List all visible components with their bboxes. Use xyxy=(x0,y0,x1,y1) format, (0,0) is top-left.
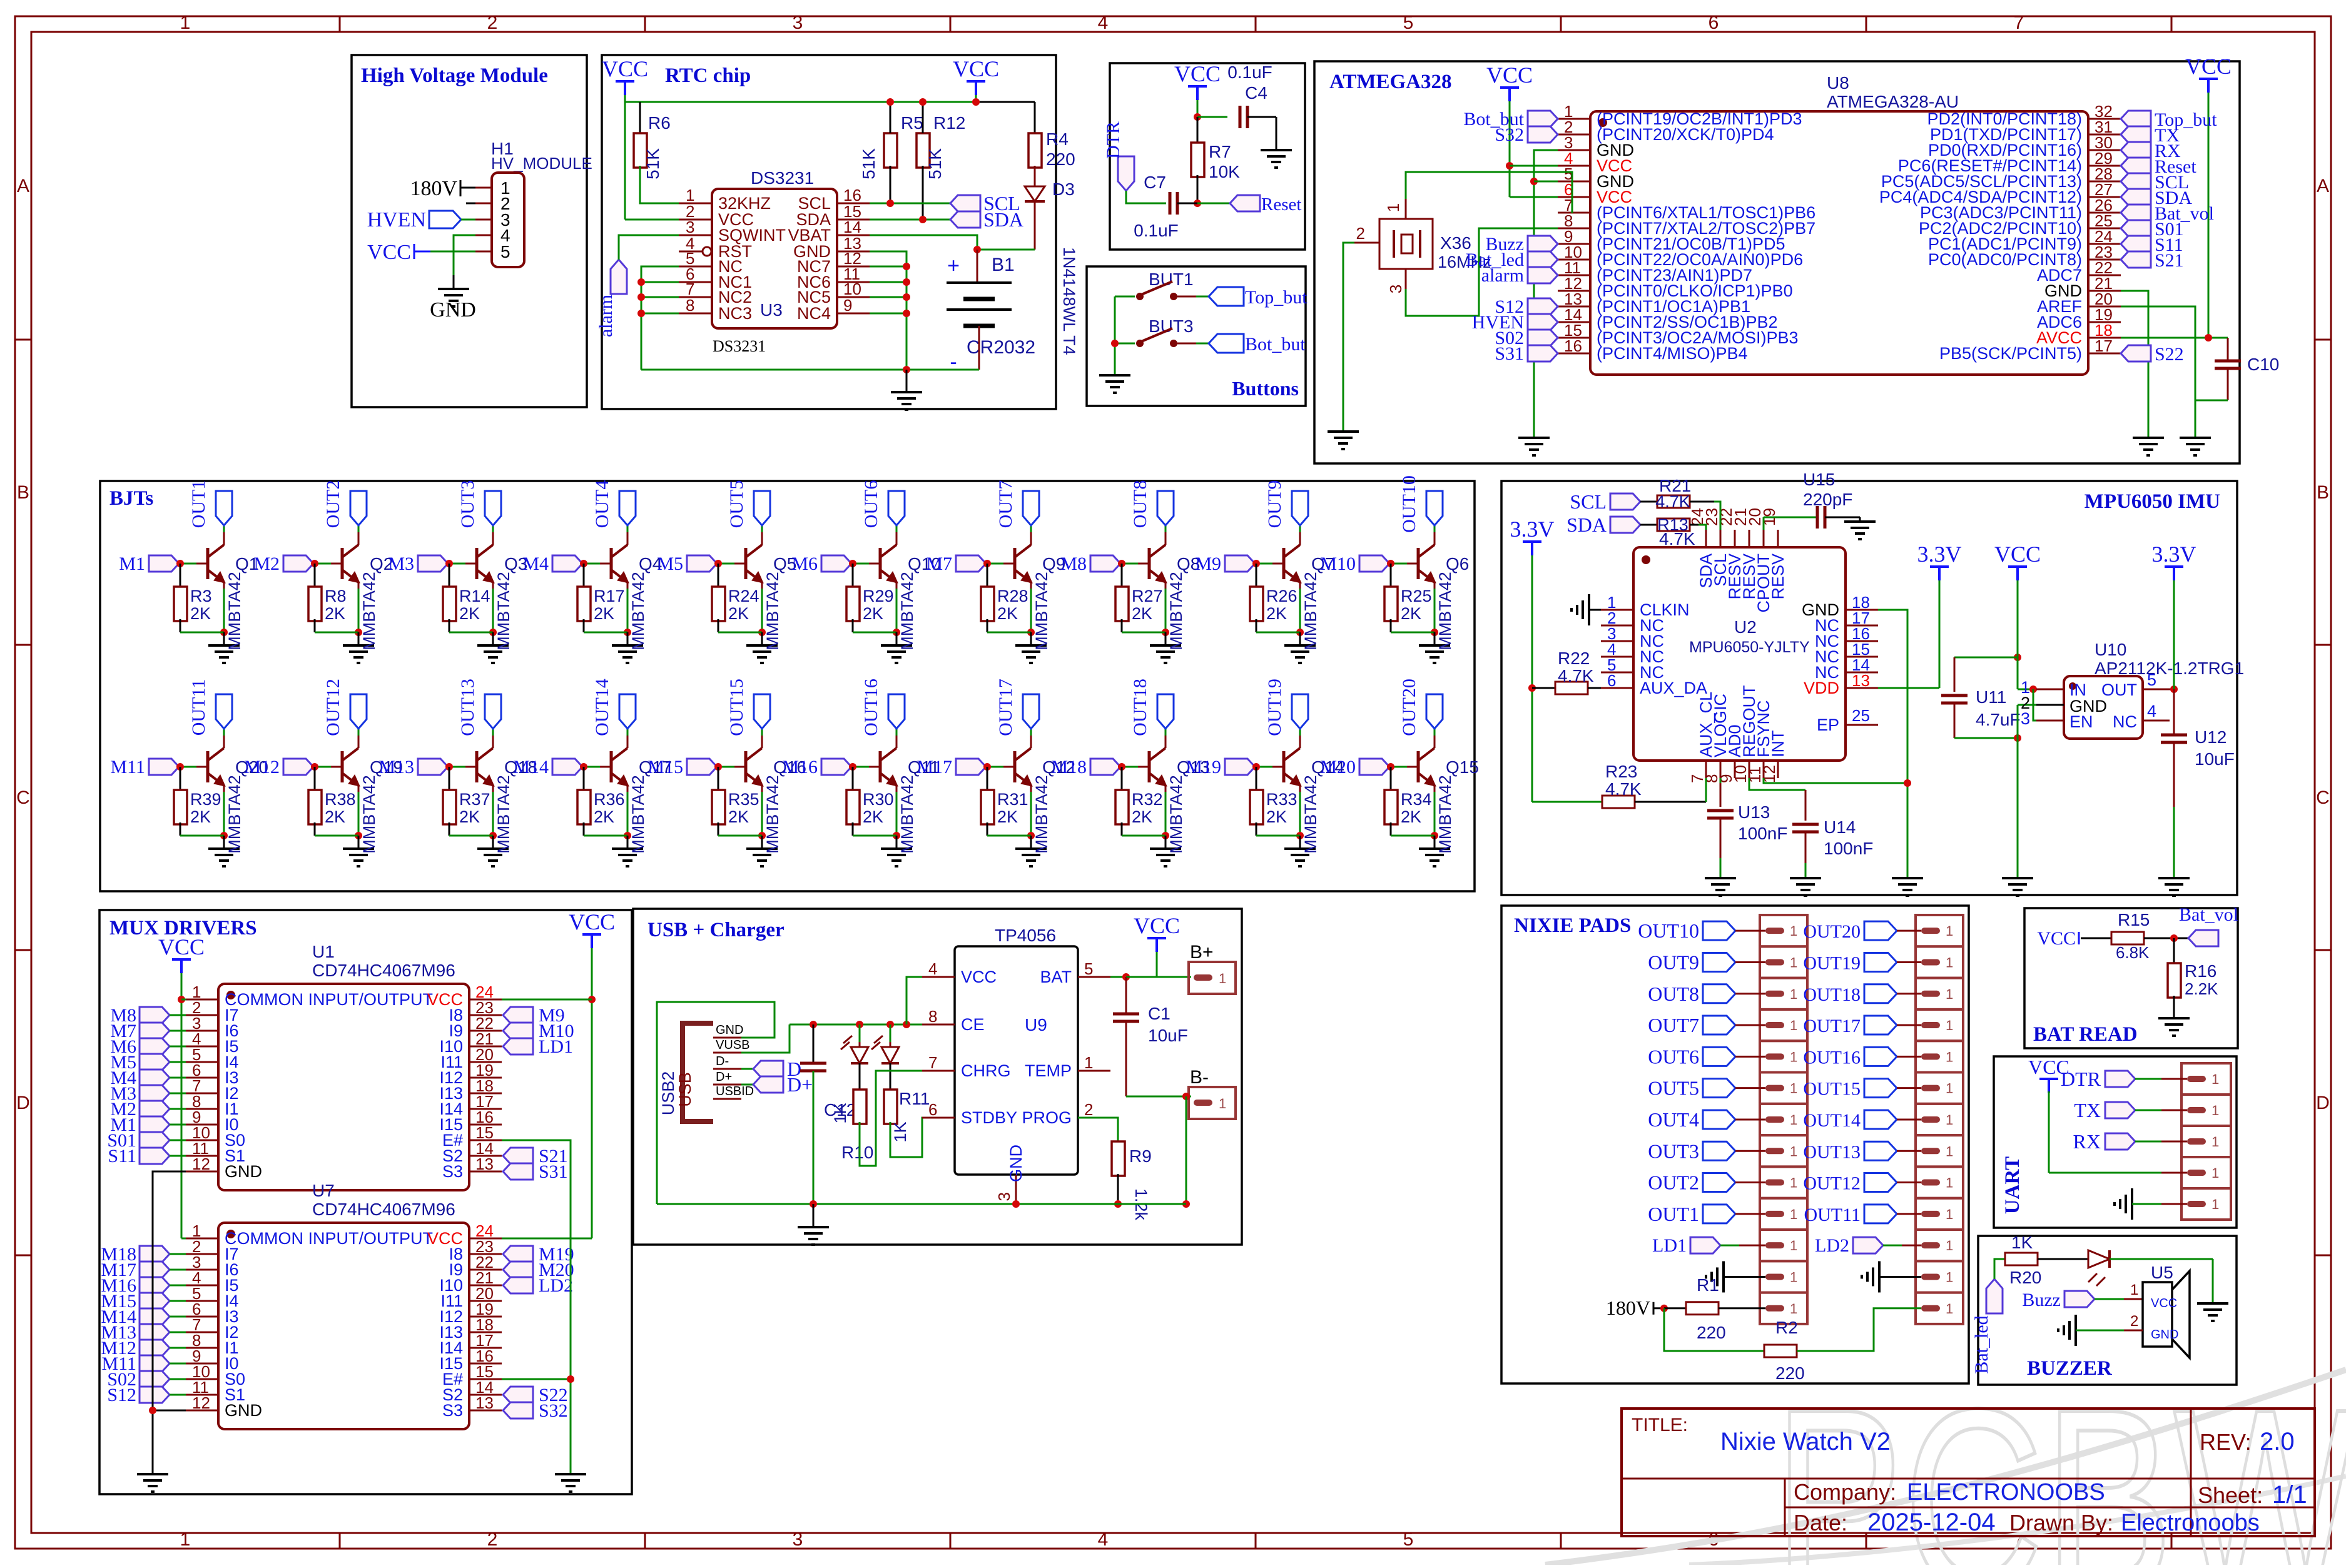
svg-text:USB + Charger: USB + Charger xyxy=(647,919,785,941)
svg-text:1: 1 xyxy=(1946,1049,1953,1065)
svg-text:MMBTA42: MMBTA42 xyxy=(763,572,782,650)
svg-text:R27: R27 xyxy=(1132,587,1163,605)
svg-text:OUT1: OUT1 xyxy=(1648,1203,1699,1225)
svg-text:S22: S22 xyxy=(2155,344,2184,365)
svg-text:Date:: Date: xyxy=(1794,1510,1847,1535)
svg-text:U7: U7 xyxy=(312,1181,335,1200)
svg-text:4: 4 xyxy=(1098,13,1109,33)
svg-text:2K: 2K xyxy=(1401,604,1421,623)
svg-text:M10: M10 xyxy=(1320,554,1356,574)
svg-text:R2: R2 xyxy=(1775,1318,1798,1337)
svg-text:VCC: VCC xyxy=(158,934,205,959)
svg-text:2K: 2K xyxy=(1266,604,1287,623)
svg-text:VUSB: VUSB xyxy=(716,1038,749,1052)
svg-text:GND: GND xyxy=(225,1162,262,1181)
svg-text:1: 1 xyxy=(1219,971,1226,986)
svg-text:1: 1 xyxy=(1946,923,1953,939)
svg-text:M5: M5 xyxy=(657,554,683,574)
svg-text:M15: M15 xyxy=(647,757,683,777)
svg-text:COMMON INPUT/OUTPUT: COMMON INPUT/OUTPUT xyxy=(225,990,433,1009)
svg-text:R34: R34 xyxy=(1401,790,1432,809)
svg-text:OUT18: OUT18 xyxy=(1130,679,1150,736)
svg-text:M12: M12 xyxy=(244,757,280,777)
svg-text:GND: GND xyxy=(225,1401,262,1420)
svg-text:VCC: VCC xyxy=(1486,63,1533,88)
svg-text:BJTs: BJTs xyxy=(109,487,153,510)
svg-text:180V: 180V xyxy=(1606,1297,1650,1319)
svg-text:OUT6: OUT6 xyxy=(861,480,881,529)
svg-text:2K: 2K xyxy=(594,604,614,623)
svg-text:C4: C4 xyxy=(1245,83,1267,103)
svg-text:1: 1 xyxy=(180,13,191,33)
svg-text:1: 1 xyxy=(1946,1238,1953,1253)
svg-text:UART: UART xyxy=(2001,1156,2024,1214)
svg-text:M4: M4 xyxy=(522,554,549,574)
svg-text:C10: C10 xyxy=(2247,355,2279,374)
svg-text:Buzz: Buzz xyxy=(2022,1290,2061,1310)
svg-text:1: 1 xyxy=(2211,1103,2219,1118)
svg-text:R24: R24 xyxy=(728,587,759,605)
svg-text:17: 17 xyxy=(2095,336,2113,355)
svg-text:VDD: VDD xyxy=(1804,679,1839,697)
svg-text:2: 2 xyxy=(487,13,498,33)
svg-text:2K: 2K xyxy=(459,604,480,623)
svg-text:OUT4: OUT4 xyxy=(1648,1108,1699,1131)
svg-text:TEMP: TEMP xyxy=(1025,1061,1072,1080)
svg-text:4: 4 xyxy=(928,959,937,978)
svg-text:VCC: VCC xyxy=(953,56,999,81)
svg-text:2K: 2K xyxy=(594,807,614,826)
svg-text:1: 1 xyxy=(1384,203,1403,212)
svg-text:MMBTA42: MMBTA42 xyxy=(1301,775,1320,854)
svg-text:220pF: 220pF xyxy=(1803,490,1852,509)
svg-text:OUT1: OUT1 xyxy=(188,480,209,529)
svg-text:1: 1 xyxy=(2211,1165,2219,1181)
svg-text:MMBTA42: MMBTA42 xyxy=(360,572,378,650)
svg-text:BUT1: BUT1 xyxy=(1149,270,1194,289)
svg-text:M3: M3 xyxy=(388,554,414,574)
svg-text:1: 1 xyxy=(1946,1112,1953,1128)
svg-text:S21: S21 xyxy=(2155,250,2184,271)
svg-text:2025-12-04: 2025-12-04 xyxy=(1867,1509,1996,1536)
svg-text:1: 1 xyxy=(2211,1196,2219,1212)
svg-text:RX: RX xyxy=(2073,1130,2101,1153)
svg-text:M2: M2 xyxy=(253,554,280,574)
svg-text:PB5(SCK/PCINT5): PB5(SCK/PCINT5) xyxy=(1939,344,2082,363)
svg-text:10uF: 10uF xyxy=(1148,1026,1188,1045)
svg-text:VCC: VCC xyxy=(1994,542,2041,567)
svg-text:M18: M18 xyxy=(1051,757,1087,777)
svg-text:HV_MODULE: HV_MODULE xyxy=(491,154,592,173)
svg-text:HVEN: HVEN xyxy=(367,208,426,231)
svg-text:12: 12 xyxy=(192,1155,210,1173)
svg-text:R28: R28 xyxy=(997,587,1028,605)
svg-text:MMBTA42: MMBTA42 xyxy=(1032,572,1051,650)
svg-text:R20: R20 xyxy=(2009,1268,2041,1287)
svg-text:VCC: VCC xyxy=(2037,928,2076,949)
svg-text:OUT20: OUT20 xyxy=(1803,921,1861,942)
svg-text:6.8K: 6.8K xyxy=(2116,943,2150,962)
svg-text:S31: S31 xyxy=(539,1161,568,1182)
svg-text:M14: M14 xyxy=(513,757,549,777)
svg-text:R9: R9 xyxy=(1129,1146,1152,1166)
svg-text:4.7K: 4.7K xyxy=(1655,492,1690,511)
svg-text:B+: B+ xyxy=(1190,942,1214,963)
svg-text:1: 1 xyxy=(1946,1301,1953,1317)
svg-text:OUT2: OUT2 xyxy=(1648,1171,1699,1194)
svg-text:VCC: VCC xyxy=(569,909,615,934)
svg-text:U11: U11 xyxy=(1976,687,2006,707)
svg-text:R36: R36 xyxy=(594,790,625,809)
svg-text:BAT: BAT xyxy=(1040,968,1072,986)
svg-text:51K: 51K xyxy=(925,148,945,180)
svg-text:COMMON INPUT/OUTPUT: COMMON INPUT/OUTPUT xyxy=(225,1229,433,1248)
svg-text:LD1: LD1 xyxy=(539,1036,573,1057)
svg-text:MMBTA42: MMBTA42 xyxy=(225,775,244,854)
svg-text:MPU6050 IMU: MPU6050 IMU xyxy=(2084,490,2220,513)
svg-text:OUT15: OUT15 xyxy=(726,679,747,736)
svg-text:2K: 2K xyxy=(728,807,749,826)
svg-text:1: 1 xyxy=(1790,1269,1797,1285)
svg-text:13: 13 xyxy=(475,1393,494,1412)
svg-text:ATMEGA328-AU: ATMEGA328-AU xyxy=(1827,92,1959,111)
svg-text:1: 1 xyxy=(1790,1143,1797,1159)
svg-text:R30: R30 xyxy=(863,790,894,809)
svg-text:TITLE:: TITLE: xyxy=(1632,1415,1688,1435)
svg-text:1: 1 xyxy=(1946,986,1953,1002)
svg-text:3: 3 xyxy=(2021,709,2030,728)
svg-text:NC3: NC3 xyxy=(718,304,752,323)
svg-text:1: 1 xyxy=(1790,986,1797,1002)
svg-text:3: 3 xyxy=(995,1192,1013,1201)
svg-text:OUT11: OUT11 xyxy=(1804,1205,1861,1225)
svg-text:OUT: OUT xyxy=(2101,680,2137,699)
svg-text:MMBTA42: MMBTA42 xyxy=(225,572,244,650)
svg-text:R15: R15 xyxy=(2118,910,2150,929)
svg-text:M1: M1 xyxy=(119,554,145,574)
svg-text:OUT13: OUT13 xyxy=(1803,1141,1861,1162)
svg-text:CE: CE xyxy=(961,1015,985,1034)
svg-text:U10: U10 xyxy=(2095,640,2126,659)
svg-text:OUT17: OUT17 xyxy=(1803,1016,1861,1036)
svg-text:VCC: VCC xyxy=(961,968,997,986)
svg-text:2K: 2K xyxy=(325,807,345,826)
svg-text:R10: R10 xyxy=(841,1143,873,1162)
svg-text:NIXIE PADS: NIXIE PADS xyxy=(1514,914,1631,937)
svg-text:1: 1 xyxy=(1946,1081,1953,1096)
svg-text:U3: U3 xyxy=(760,300,783,320)
svg-text:Bot_but: Bot_but xyxy=(1245,334,1306,355)
svg-text:VCC: VCC xyxy=(367,241,411,264)
svg-text:8: 8 xyxy=(928,1007,937,1026)
svg-text:C1: C1 xyxy=(1148,1004,1170,1023)
svg-text:1: 1 xyxy=(1946,954,1953,970)
svg-text:S32: S32 xyxy=(1495,124,1524,145)
svg-text:6: 6 xyxy=(928,1100,937,1119)
svg-text:D: D xyxy=(2316,1093,2330,1113)
svg-text:S12: S12 xyxy=(107,1385,136,1405)
svg-text:7: 7 xyxy=(928,1053,937,1072)
svg-text:USB2: USB2 xyxy=(659,1071,678,1116)
svg-text:SCL: SCL xyxy=(1570,490,1607,513)
svg-text:R8: R8 xyxy=(325,587,347,605)
svg-text:S11: S11 xyxy=(108,1146,136,1166)
svg-text:2K: 2K xyxy=(1132,604,1152,623)
svg-text:3.3V: 3.3V xyxy=(2152,542,2196,567)
svg-text:OUT5: OUT5 xyxy=(1648,1077,1699,1100)
svg-text:CD74HC4067M96: CD74HC4067M96 xyxy=(312,961,455,980)
svg-text:5: 5 xyxy=(500,242,510,261)
svg-text:A: A xyxy=(2317,176,2329,196)
svg-text:1: 1 xyxy=(1790,1018,1797,1033)
svg-text:0.1uF: 0.1uF xyxy=(1227,63,1272,82)
svg-text:R14: R14 xyxy=(459,587,490,605)
svg-text:DTR: DTR xyxy=(1103,121,1124,159)
svg-text:MMBTA42: MMBTA42 xyxy=(898,572,917,650)
svg-text:USB: USB xyxy=(676,1072,694,1107)
svg-text:SDA: SDA xyxy=(983,208,1023,231)
svg-text:2K: 2K xyxy=(997,604,1018,623)
svg-text:M7: M7 xyxy=(926,554,952,574)
svg-text:R38: R38 xyxy=(325,790,356,809)
svg-text:1: 1 xyxy=(1219,1096,1226,1111)
svg-text:B: B xyxy=(2317,482,2329,503)
svg-text:NC4: NC4 xyxy=(797,304,831,323)
svg-text:OUT14: OUT14 xyxy=(592,679,612,736)
svg-text:13: 13 xyxy=(475,1155,494,1173)
svg-text:R32: R32 xyxy=(1132,790,1163,809)
svg-text:R1: R1 xyxy=(1697,1275,1719,1295)
svg-text:4.7K: 4.7K xyxy=(1558,666,1594,685)
svg-text:Q6: Q6 xyxy=(1446,554,1469,574)
svg-text:CR2032: CR2032 xyxy=(967,337,1035,358)
svg-text:1: 1 xyxy=(1084,1053,1093,1072)
svg-text:U12: U12 xyxy=(2195,727,2227,747)
svg-text:OUT2: OUT2 xyxy=(323,480,343,529)
svg-text:U14: U14 xyxy=(1824,817,1856,837)
svg-text:M16: M16 xyxy=(782,757,818,777)
svg-text:A: A xyxy=(17,176,29,196)
svg-text:MMBTA42: MMBTA42 xyxy=(1167,572,1186,650)
svg-text:U15: U15 xyxy=(1803,470,1835,489)
svg-text:OUT10: OUT10 xyxy=(1638,919,1699,942)
svg-text:OUT19: OUT19 xyxy=(1264,679,1285,736)
svg-text:1: 1 xyxy=(1790,1081,1797,1096)
svg-text:6: 6 xyxy=(1607,671,1616,690)
svg-text:U8: U8 xyxy=(1827,73,1849,93)
svg-text:2K: 2K xyxy=(997,807,1018,826)
svg-text:1: 1 xyxy=(1790,923,1797,939)
svg-text:0.1uF: 0.1uF xyxy=(1134,221,1179,240)
svg-text:OUT13: OUT13 xyxy=(457,679,478,736)
svg-text:OUT5: OUT5 xyxy=(726,480,747,529)
svg-text:OUT9: OUT9 xyxy=(1648,951,1699,973)
svg-text:2K: 2K xyxy=(190,604,211,623)
svg-text:S31: S31 xyxy=(1495,343,1524,364)
svg-text:R37: R37 xyxy=(459,790,490,809)
svg-text:R22: R22 xyxy=(1558,649,1590,668)
svg-text:VCC: VCC xyxy=(1174,61,1221,86)
svg-text:2: 2 xyxy=(1356,224,1365,243)
svg-text:1N4148WL T4: 1N4148WL T4 xyxy=(1060,247,1079,355)
svg-text:INT: INT xyxy=(1769,731,1787,758)
svg-text:OUT12: OUT12 xyxy=(323,679,343,736)
svg-text:3.3V: 3.3V xyxy=(1917,542,1962,567)
svg-text:Nixie Watch V2: Nixie Watch V2 xyxy=(1720,1428,1891,1455)
svg-text:2: 2 xyxy=(1084,1100,1093,1119)
svg-text:OUT19: OUT19 xyxy=(1803,953,1861,973)
svg-text:1: 1 xyxy=(1790,1238,1797,1253)
svg-text:16: 16 xyxy=(1564,336,1582,355)
svg-text:10K: 10K xyxy=(1209,162,1240,181)
svg-text:OUT11: OUT11 xyxy=(188,679,209,736)
svg-text:R29: R29 xyxy=(863,587,894,605)
svg-text:OUT7: OUT7 xyxy=(1648,1014,1699,1036)
svg-text:9: 9 xyxy=(843,296,852,315)
svg-text:GND: GND xyxy=(2151,1328,2178,1342)
svg-text:NC: NC xyxy=(2113,712,2137,731)
svg-text:OUT20: OUT20 xyxy=(1399,679,1419,736)
svg-text:MMBTA42: MMBTA42 xyxy=(360,775,378,854)
svg-text:Top_but: Top_but xyxy=(1245,287,1308,308)
svg-text:S3: S3 xyxy=(442,1401,463,1420)
svg-text:D: D xyxy=(16,1093,30,1113)
svg-text:U5: U5 xyxy=(2151,1263,2173,1282)
svg-text:VCC: VCC xyxy=(2151,1297,2177,1310)
svg-text:2K: 2K xyxy=(1266,807,1287,826)
svg-text:GND: GND xyxy=(1007,1145,1025,1182)
svg-text:OUT4: OUT4 xyxy=(592,480,612,529)
svg-text:EP: EP xyxy=(1817,716,1839,734)
svg-text:OUT15: OUT15 xyxy=(1803,1079,1861,1100)
svg-text:OUT7: OUT7 xyxy=(995,480,1016,529)
svg-text:OUT16: OUT16 xyxy=(861,679,881,736)
svg-text:R7: R7 xyxy=(1209,142,1231,161)
svg-text:alarm: alarm xyxy=(1481,265,1524,286)
svg-text:1K: 1K xyxy=(831,1103,850,1123)
svg-text:DS3231: DS3231 xyxy=(751,168,814,188)
svg-text:B1: B1 xyxy=(992,255,1015,275)
svg-text:M20: M20 xyxy=(1320,757,1356,777)
svg-text:High Voltage Module: High Voltage Module xyxy=(361,64,548,87)
svg-text:OUT9: OUT9 xyxy=(1264,480,1285,529)
svg-text:LD2: LD2 xyxy=(539,1275,573,1296)
svg-text:RTC chip: RTC chip xyxy=(665,64,751,87)
svg-text:alarm: alarm xyxy=(596,295,616,337)
svg-text:R17: R17 xyxy=(594,587,625,605)
svg-text:R35: R35 xyxy=(728,790,759,809)
svg-text:2: 2 xyxy=(2130,1313,2138,1330)
svg-text:3: 3 xyxy=(793,13,803,33)
svg-text:OUT3: OUT3 xyxy=(457,480,478,529)
svg-text:U13: U13 xyxy=(1738,802,1770,822)
svg-text:SDA: SDA xyxy=(1567,513,1607,536)
svg-text:1: 1 xyxy=(1790,1206,1797,1222)
svg-text:1: 1 xyxy=(1790,1301,1797,1317)
svg-text:100nF: 100nF xyxy=(1738,824,1787,843)
svg-text:BAT READ: BAT READ xyxy=(2033,1023,2138,1046)
svg-text:R4: R4 xyxy=(1046,129,1069,149)
svg-text:51K: 51K xyxy=(643,148,663,180)
svg-text:MMBTA42: MMBTA42 xyxy=(1032,775,1051,854)
svg-text:1: 1 xyxy=(1790,1175,1797,1191)
svg-text:Drawn By:: Drawn By: xyxy=(2009,1510,2113,1535)
svg-text:1: 1 xyxy=(180,1529,191,1550)
svg-text:BUT3: BUT3 xyxy=(1149,316,1194,336)
svg-text:D-: D- xyxy=(716,1055,729,1068)
svg-text:U2: U2 xyxy=(1734,617,1757,637)
svg-text:M11: M11 xyxy=(110,757,145,777)
svg-text:GND: GND xyxy=(430,298,476,321)
svg-text:OUT3: OUT3 xyxy=(1648,1140,1699,1162)
svg-text:220: 220 xyxy=(1697,1323,1726,1342)
svg-text:MMBTA42: MMBTA42 xyxy=(494,775,513,854)
svg-text:R23: R23 xyxy=(1605,762,1637,781)
svg-text:OUT14: OUT14 xyxy=(1803,1110,1861,1131)
svg-text:4: 4 xyxy=(1098,1529,1109,1550)
svg-text:S32: S32 xyxy=(539,1400,568,1421)
svg-text:R3: R3 xyxy=(190,587,212,605)
svg-text:(PCINT4/MISO)PB4: (PCINT4/MISO)PB4 xyxy=(1597,344,1748,363)
svg-text:R26: R26 xyxy=(1266,587,1297,605)
svg-text:2K: 2K xyxy=(190,807,211,826)
svg-text:1: 1 xyxy=(1946,1018,1953,1033)
svg-text:1: 1 xyxy=(1790,1049,1797,1065)
svg-text:OUT10: OUT10 xyxy=(1399,475,1419,533)
svg-text:D3: D3 xyxy=(1052,180,1075,199)
svg-text:ELECTRONOOBS: ELECTRONOOBS xyxy=(1907,1479,2105,1505)
svg-text:10uF: 10uF xyxy=(2195,749,2235,769)
svg-text:1: 1 xyxy=(1946,1269,1953,1285)
svg-text:1/1: 1/1 xyxy=(2272,1481,2307,1509)
svg-text:2: 2 xyxy=(487,1529,498,1550)
svg-text:2K: 2K xyxy=(1132,807,1152,826)
svg-text:CHRG: CHRG xyxy=(961,1061,1011,1080)
svg-text:1K: 1K xyxy=(2011,1233,2033,1252)
svg-text:Electronoobs: Electronoobs xyxy=(2121,1510,2260,1536)
svg-text:OUT16: OUT16 xyxy=(1803,1047,1861,1068)
svg-text:MMBTA42: MMBTA42 xyxy=(494,572,513,650)
svg-text:MMBTA42: MMBTA42 xyxy=(1436,572,1455,650)
svg-text:1: 1 xyxy=(1946,1206,1953,1222)
svg-text:2.2K: 2.2K xyxy=(2185,979,2218,998)
svg-text:2.0: 2.0 xyxy=(2260,1428,2295,1455)
svg-text:Reset: Reset xyxy=(1261,195,1301,215)
svg-text:R31: R31 xyxy=(997,790,1028,809)
svg-text:OUT6: OUT6 xyxy=(1648,1045,1699,1068)
svg-text:4.7K: 4.7K xyxy=(1659,529,1695,549)
svg-text:5: 5 xyxy=(1084,959,1093,978)
svg-text:OUT18: OUT18 xyxy=(1803,984,1861,1005)
svg-text:25: 25 xyxy=(1852,706,1870,725)
svg-text:CD74HC4067M96: CD74HC4067M96 xyxy=(312,1200,455,1219)
svg-text:5: 5 xyxy=(1403,13,1414,33)
svg-text:B-: B- xyxy=(1190,1067,1209,1088)
svg-text:MMBTA42: MMBTA42 xyxy=(1167,775,1186,854)
svg-text:MMBTA42: MMBTA42 xyxy=(898,775,917,854)
svg-text:7: 7 xyxy=(2014,13,2024,33)
svg-text:3: 3 xyxy=(793,1529,803,1550)
svg-text:GND: GND xyxy=(716,1023,743,1037)
svg-text:2K: 2K xyxy=(325,604,345,623)
svg-text:M6: M6 xyxy=(791,554,818,574)
svg-text:M13: M13 xyxy=(378,757,414,777)
svg-text:LD1: LD1 xyxy=(1652,1235,1687,1256)
svg-text:R5: R5 xyxy=(901,113,923,133)
svg-text:ATMEGA328: ATMEGA328 xyxy=(1329,71,1452,93)
svg-text:4.7K: 4.7K xyxy=(1605,779,1642,799)
svg-text:5: 5 xyxy=(2147,670,2156,689)
